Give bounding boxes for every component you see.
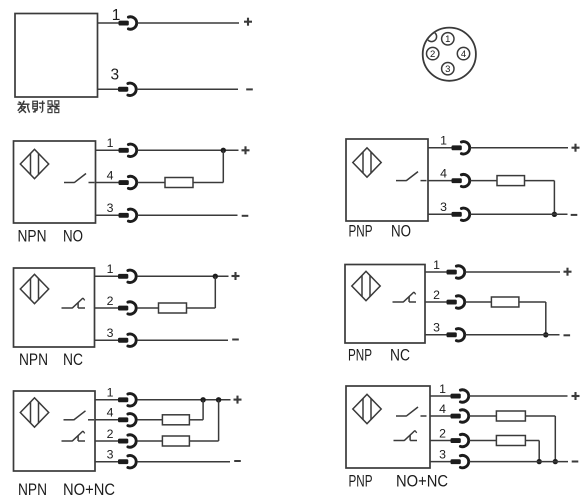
PNP NO wire pin 3 from box — [428, 213, 453, 215]
NPN NO label NPN — [18, 227, 47, 245]
load resistor — [497, 176, 525, 186]
PNP NC connector plug pin 3 — [447, 329, 465, 341]
svg-text:1: 1 — [433, 258, 440, 272]
PNP NO+NC NC contact — [394, 431, 418, 441]
load resistor 2 — [162, 436, 189, 446]
PNP NO+NC sensor symbol (diamond) — [353, 394, 381, 423]
NPN NO+NC wire pin 4 from box — [95, 419, 120, 421]
PNP NO sensor box — [346, 139, 428, 221]
PNP NC wire pin 2 from box — [425, 301, 448, 303]
PNP NO pin number 3 — [440, 200, 447, 214]
wire pin1 to plus — [137, 275, 228, 277]
PNP NC pin number 1 — [433, 258, 440, 272]
NPN NC connector plug pin 3 — [118, 334, 136, 346]
connector body circle — [423, 28, 476, 81]
NPN NO wire pin 3 from box — [96, 214, 121, 216]
NPN NO wire pin 4 from box — [96, 182, 121, 184]
PNP NO pin number 4 — [440, 166, 447, 180]
pin number 3 — [110, 67, 119, 84]
wire pin1 to plus — [469, 395, 567, 397]
wire pin1 to plus — [470, 147, 568, 149]
wire pin1 to plus — [465, 271, 560, 273]
plus terminal — [572, 144, 580, 152]
PNP NO connector plug pin 1 — [452, 142, 470, 154]
wire pin3 to minus — [470, 213, 567, 215]
NPN NO+NC pin number 2 — [107, 427, 114, 441]
connector pin 1 — [442, 33, 454, 46]
NPN NC label NC — [63, 351, 83, 369]
NPN NC sensor symbol (diamond) — [20, 274, 48, 303]
PNP NO connector plug pin 3 — [452, 208, 470, 220]
NPN NO+NC wire pin 3 from box — [95, 461, 120, 463]
wire pin1 to plus — [137, 399, 230, 401]
PNP NO connector plug pin 4 — [452, 174, 470, 186]
svg-text:1: 1 — [439, 382, 446, 396]
PNP NO+NC connector plug pin 2 — [451, 434, 469, 446]
junction dot A — [200, 397, 205, 402]
NPN NO connector plug pin 4 — [119, 176, 137, 188]
junction dot — [221, 148, 226, 153]
PNP NO+NC NO contact — [396, 407, 427, 416]
load resistor — [491, 297, 519, 307]
PNP NC wire pin 1 from box — [425, 271, 448, 273]
minus terminal — [242, 215, 249, 217]
NPN NO+NC NC contact — [62, 431, 86, 441]
pin number 1 — [112, 7, 121, 24]
wire pin3 to minus — [137, 214, 237, 216]
NPN NO connector plug pin 1 — [119, 144, 137, 156]
svg-text:4: 4 — [107, 168, 114, 182]
NPN NC connector plug pin 2 — [118, 302, 136, 314]
PNP NC connector plug pin 2 — [447, 296, 465, 308]
svg-text:NO: NO — [63, 227, 83, 245]
junction dot — [543, 332, 548, 337]
minus terminal — [572, 461, 579, 463]
NPN NC pin number 1 — [107, 262, 114, 276]
wire load to junction — [525, 181, 555, 215]
PNP NC pin number 2 — [433, 288, 440, 302]
wire load to junction — [519, 302, 546, 335]
svg-text:NC: NC — [63, 351, 83, 369]
junction dot — [552, 212, 557, 217]
NPN NC pin number 2 — [107, 294, 114, 308]
NPN NO NO contact — [64, 174, 95, 183]
svg-text:NPN: NPN — [18, 227, 47, 245]
plus terminal — [244, 18, 252, 26]
NPN NC connector plug pin 1 — [118, 270, 136, 282]
minus terminal — [246, 88, 253, 90]
wire pin1 to plus — [137, 149, 238, 151]
svg-text:2: 2 — [107, 427, 114, 441]
wire pin4 to load1 — [469, 415, 496, 417]
connector pin 2 — [427, 47, 439, 60]
plus terminal — [232, 272, 240, 280]
NPN NC pin number 3 — [107, 326, 114, 340]
PNP NO+NC wire pin 2 from box — [430, 440, 452, 442]
transmitter box — [15, 14, 98, 98]
PNP NO+NC wire pin 4 from box — [430, 415, 452, 417]
wire pin2 to load2 — [137, 440, 162, 442]
PNP NO wire pin 4 from box — [428, 180, 453, 182]
wire pin3 to minus — [469, 461, 568, 463]
svg-text:1: 1 — [445, 34, 450, 45]
wire load2 to junction B — [189, 400, 218, 441]
svg-text:3: 3 — [433, 321, 440, 335]
PNP NC pin number 3 — [433, 321, 440, 335]
PNP NO sensor symbol (diamond) — [353, 148, 381, 177]
PNP NC sensor symbol (diamond) — [352, 271, 380, 300]
NPN NO connector plug pin 3 — [119, 209, 137, 221]
wire pin4 to load — [137, 182, 165, 184]
svg-text:3: 3 — [440, 200, 447, 214]
NPN NO+NC connector plug pin 3 — [118, 456, 136, 468]
NPN NO+NC wire pin 1 from box — [95, 399, 120, 401]
svg-text:NPN: NPN — [18, 481, 47, 499]
PNP NC sensor box — [345, 265, 425, 344]
svg-text:3: 3 — [107, 448, 114, 462]
svg-text:3: 3 — [439, 447, 446, 461]
NPN NO+NC pin number 4 — [107, 406, 114, 420]
wire pin1 from box — [98, 22, 121, 24]
wire load to junction — [193, 150, 223, 182]
PNP NO label PNP — [349, 223, 373, 241]
NPN NO sensor box — [14, 141, 96, 223]
NPN NC label NPN — [19, 351, 48, 369]
wire load to junction — [187, 276, 216, 308]
junction dot A — [553, 459, 558, 464]
wire pin3 to minus — [137, 339, 228, 341]
minus terminal — [232, 339, 239, 341]
PNP NO wire pin 1 from box — [428, 147, 453, 149]
PNP NC label NC — [390, 347, 410, 365]
svg-text:1: 1 — [107, 386, 114, 400]
svg-text:NO+NC: NO+NC — [396, 473, 448, 491]
svg-text:PNP: PNP — [348, 347, 372, 365]
PNP NO+NC pin number 2 — [439, 426, 446, 440]
svg-text:3: 3 — [110, 67, 119, 84]
NPN NC wire pin 2 from box — [95, 307, 120, 309]
PNP NO+NC connector plug pin 4 — [451, 410, 469, 422]
svg-text:PNP: PNP — [349, 473, 373, 491]
connector pin 4 — [457, 47, 469, 60]
wire pin3 to minus — [137, 461, 230, 463]
PNP NC NC contact — [393, 292, 417, 302]
junction dot B — [216, 397, 221, 402]
svg-text:4: 4 — [461, 49, 466, 60]
NPN NO wire pin 1 from box — [96, 149, 121, 151]
PNP NO+NC connector plug pin 1 — [451, 390, 469, 402]
PNP NO+NC label PNP — [349, 473, 373, 491]
connector pin 3 — [442, 62, 454, 75]
svg-text:NPN: NPN — [19, 351, 48, 369]
PNP NO+NC wire pin 1 from box — [430, 395, 452, 397]
svg-text:4: 4 — [439, 402, 446, 416]
wire pin3 to minus — [465, 334, 559, 336]
connector plug pin 3 — [118, 83, 136, 95]
PNP NO+NC pin number 4 — [439, 402, 446, 416]
NPN NO+NC pin number 3 — [107, 448, 114, 462]
svg-text:4: 4 — [440, 166, 447, 180]
PNP NC label PNP — [348, 347, 372, 365]
minus terminal — [564, 334, 571, 336]
NPN NO+NC NO contact — [64, 411, 95, 420]
load resistor — [159, 303, 187, 313]
NPN NO+NC pin number 1 — [107, 386, 114, 400]
NPN NO label NO — [63, 227, 83, 245]
svg-text:1: 1 — [107, 262, 114, 276]
PNP NC wire pin 3 from box — [425, 334, 448, 336]
load resistor 2 — [496, 436, 525, 446]
plus terminal — [572, 392, 580, 400]
svg-text:NO: NO — [391, 223, 411, 241]
NPN NO+NC sensor box — [14, 391, 96, 471]
NPN NC sensor box — [14, 268, 95, 347]
NPN NO pin number 1 — [107, 136, 114, 150]
NPN NC wire pin 1 from box — [95, 275, 120, 277]
NPN NC NC contact — [62, 298, 86, 308]
PNP NO+NC pin number 3 — [439, 447, 446, 461]
wire pin2 to load — [137, 307, 158, 309]
svg-text:2: 2 — [439, 426, 446, 440]
NPN NO+NC connector plug pin 2 — [118, 435, 136, 447]
PNP NO+NC pin number 1 — [439, 382, 446, 396]
wire pin3 from box — [98, 88, 121, 90]
PNP NO+NC wire pin 3 from box — [430, 461, 452, 463]
svg-text:3: 3 — [107, 201, 114, 215]
NPN NO+NC connector plug pin 4 — [118, 414, 136, 426]
NPN NO+NC connector plug pin 1 — [118, 394, 136, 406]
wire pin4 to load1 — [137, 419, 162, 421]
load resistor 1 — [496, 411, 525, 421]
wire pin1 to plus — [137, 22, 239, 24]
minus terminal — [234, 460, 241, 462]
svg-text:PNP: PNP — [349, 223, 373, 241]
NPN NO pin number 3 — [107, 201, 114, 215]
minus terminal — [571, 214, 578, 216]
PNP NO NO contact — [396, 172, 427, 181]
svg-text:NC: NC — [390, 347, 410, 365]
svg-text:1: 1 — [440, 134, 447, 148]
PNP NO+NC connector plug pin 3 — [451, 455, 469, 467]
NPN NO pin number 4 — [107, 168, 114, 182]
wire pin2 to load2 — [469, 440, 496, 442]
NPN NO+NC label NO+NC — [63, 481, 115, 499]
svg-text:2: 2 — [433, 288, 440, 302]
svg-text:2: 2 — [430, 49, 435, 60]
NPN NO+NC wire pin 2 from box — [95, 440, 120, 442]
svg-text:3: 3 — [107, 326, 114, 340]
wire load1 to junction A — [189, 400, 203, 420]
junction dot — [213, 274, 218, 279]
NPN NO+NC sensor symbol (diamond) — [20, 398, 48, 427]
svg-text:4: 4 — [107, 406, 114, 420]
PNP NO pin number 1 — [440, 134, 447, 148]
load resistor — [165, 178, 193, 188]
plus terminal — [234, 396, 242, 404]
wire pin4 to load — [470, 180, 497, 182]
svg-text:2: 2 — [107, 294, 114, 308]
NPN NO+NC label NPN — [18, 481, 47, 499]
svg-text:NO+NC: NO+NC — [63, 481, 115, 499]
wire load2 to junction B — [525, 441, 539, 462]
keyway notch — [427, 32, 437, 42]
PNP NO+NC label NO+NC — [396, 473, 448, 491]
plus terminal — [242, 146, 250, 154]
PNP NO label NO — [391, 223, 411, 241]
NPN NC wire pin 3 from box — [95, 339, 120, 341]
junction dot B — [537, 459, 542, 464]
wire pin2 to load — [465, 301, 491, 303]
svg-text:1: 1 — [107, 136, 114, 150]
wire pin3 to minus — [137, 88, 238, 90]
label 发射器 (transmitter) — [18, 101, 60, 113]
wire load1 to junction A — [525, 416, 555, 462]
PNP NC connector plug pin 1 — [447, 266, 465, 278]
load resistor 1 — [162, 415, 189, 425]
NPN NO sensor symbol (diamond) — [20, 149, 48, 178]
plus terminal — [564, 268, 572, 276]
PNP NO+NC sensor box — [346, 386, 430, 468]
svg-text:3: 3 — [445, 64, 450, 75]
connector plug pin 1 — [119, 17, 137, 29]
